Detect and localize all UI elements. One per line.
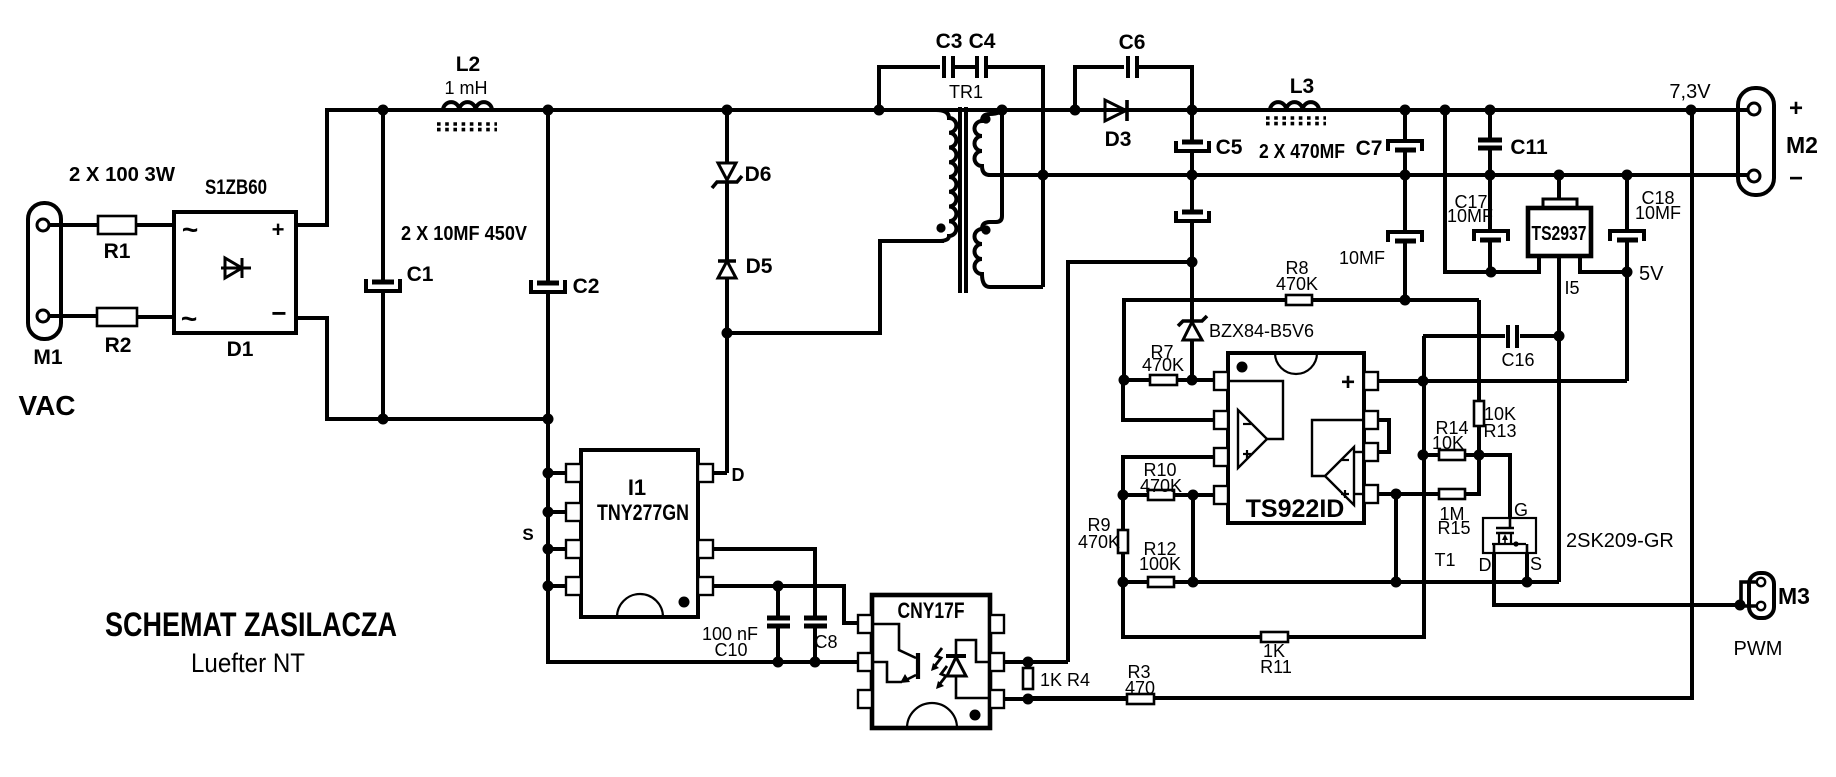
wire plus supply line xyxy=(1378,379,1627,383)
pin I1 right D xyxy=(698,464,713,482)
pin I1 left4 xyxy=(566,577,581,595)
wire C6 to rail xyxy=(1139,67,1192,110)
node D3 anode / C6 branch xyxy=(1070,105,1081,116)
pin CNY right1 xyxy=(990,615,1004,633)
svg-text:R11: R11 xyxy=(1260,657,1292,677)
svg-text:D3: D3 xyxy=(1105,128,1132,151)
svg-text:100K: 100K xyxy=(1139,554,1181,574)
svg-text:10K: 10K xyxy=(1432,433,1464,453)
node R10 right xyxy=(1188,490,1199,501)
node C1 bottom xyxy=(378,414,389,425)
node output to M2 xyxy=(1686,105,1697,116)
transformer secondary upper winding xyxy=(975,112,1002,175)
svg-text:470K: 470K xyxy=(1140,476,1182,496)
node C11 top xyxy=(1485,105,1496,116)
wire 5V down to opamp plus line xyxy=(1625,272,1629,381)
wire S pin2 xyxy=(548,510,566,514)
svg-text:M2: M2 xyxy=(1786,132,1818,158)
node M3 xyxy=(1735,600,1746,611)
node zener to pin1 xyxy=(1187,375,1198,386)
node C16 right on I5 line xyxy=(1554,331,1565,342)
pin CNY left3 xyxy=(858,690,872,708)
svg-text:+: + xyxy=(1341,369,1355,396)
wire C6 branch xyxy=(1075,67,1124,110)
pin U2 right1 xyxy=(1364,372,1378,390)
svg-text:VAC: VAC xyxy=(18,390,75,421)
node R8 line to 10MF xyxy=(1400,295,1411,306)
resistor R15 xyxy=(1396,455,1479,538)
wire bridge plus output xyxy=(296,110,327,225)
wire rail down to regulator input xyxy=(1445,110,1489,272)
connector M3 xyxy=(1740,573,1810,618)
node D6 branch xyxy=(722,105,733,116)
node C5 bottom on rail xyxy=(1187,170,1198,181)
wire R10 node down xyxy=(1191,495,1195,582)
wire top rail xyxy=(325,108,1748,112)
node secondary bottoms / Y-cap xyxy=(1038,170,1049,181)
zener BZX84-B5V6 xyxy=(1178,262,1314,380)
wire C3 C4 branch xyxy=(879,67,940,110)
svg-text:D: D xyxy=(1479,555,1492,575)
node snubber junction xyxy=(722,328,733,339)
op-amp U2B internal xyxy=(1312,420,1364,505)
svg-text:I5: I5 xyxy=(1564,278,1579,298)
node op2 out to R12 xyxy=(1391,577,1402,588)
diode D5 xyxy=(718,255,773,278)
node C3 branch xyxy=(874,105,885,116)
node rail to C17 branch xyxy=(1440,105,1451,116)
pin I1 right en xyxy=(698,577,713,595)
node R12 left xyxy=(1118,577,1129,588)
resistor R11 xyxy=(1260,632,1292,677)
svg-text:C11: C11 xyxy=(1510,136,1548,159)
optocoupler CNY17F xyxy=(872,595,990,728)
inductor L3 xyxy=(1266,75,1326,124)
svg-text:C10: C10 xyxy=(714,640,747,660)
svg-text:~: ~ xyxy=(181,303,197,334)
pin I1 left1 xyxy=(566,464,581,482)
node R7 left xyxy=(1119,375,1130,386)
svg-text:10MF: 10MF xyxy=(1339,248,1385,268)
transistor T1 2SK209 xyxy=(1434,518,1542,575)
resistor R1 xyxy=(98,216,136,263)
wire CNY collector out xyxy=(1004,660,1068,664)
IC U2 TS922ID xyxy=(1228,353,1364,523)
node R4 bottom xyxy=(1023,694,1034,705)
node source xyxy=(1522,577,1533,588)
node D3 cathode xyxy=(1187,105,1198,116)
wire inv input loop xyxy=(1123,380,1214,420)
svg-text:2 X 10MF 450V: 2 X 10MF 450V xyxy=(401,223,528,245)
svg-text:S: S xyxy=(1530,554,1542,574)
wire second rail 0V xyxy=(988,173,1748,177)
capacitor C7 xyxy=(1356,110,1422,175)
svg-text:2 X 470MF: 2 X 470MF xyxy=(1259,141,1345,163)
wire EN pin to opto xyxy=(713,586,860,623)
wire noninv input to R10 node xyxy=(1123,457,1214,495)
wire S pin4 xyxy=(548,584,566,588)
svg-text:R1: R1 xyxy=(104,240,131,263)
wire BP pin to C8 xyxy=(713,549,815,617)
capacitor C18 xyxy=(1610,175,1681,272)
node S pin4 xyxy=(543,581,554,592)
wire S pin3 xyxy=(548,547,566,551)
node C10 top xyxy=(773,581,784,592)
svg-text:C5: C5 xyxy=(1216,136,1243,159)
wire op2 output net xyxy=(1378,494,1396,582)
wire D pin xyxy=(713,471,727,475)
resistor R10 xyxy=(1140,460,1182,500)
resistor R3 xyxy=(1100,662,1200,704)
svg-text:10MF: 10MF xyxy=(1447,206,1493,226)
svg-text:1 mH: 1 mH xyxy=(444,78,487,98)
svg-text:R2: R2 xyxy=(105,334,132,357)
node TS2937 gnd pin on rail xyxy=(1554,170,1565,181)
svg-text:2SK209-GR: 2SK209-GR xyxy=(1566,530,1674,552)
svg-text:Luefter NT: Luefter NT xyxy=(191,648,305,678)
wire R11 line xyxy=(1123,336,1424,637)
svg-text:+: + xyxy=(1789,95,1803,122)
svg-text:L3: L3 xyxy=(1290,75,1315,98)
wire U2B feedback jumper xyxy=(1378,420,1389,452)
connector M2 xyxy=(1738,88,1818,195)
pin U2 right2 xyxy=(1364,411,1378,429)
wire R12 line xyxy=(1123,580,1559,584)
svg-text:C7: C7 xyxy=(1356,137,1383,160)
node feedback tap xyxy=(1187,257,1198,268)
node S pin1 xyxy=(543,468,554,479)
svg-text:C1: C1 xyxy=(407,263,434,286)
svg-text:TS922ID: TS922ID xyxy=(1246,495,1345,523)
wire C3 to C4 xyxy=(955,65,975,69)
wire CNY emitter out xyxy=(1004,697,1100,701)
wire drain to M3 xyxy=(1494,553,1740,605)
pin CNY right2 xyxy=(990,653,1004,671)
wire D6 to D5 xyxy=(725,183,729,261)
svg-text:C16: C16 xyxy=(1501,350,1534,370)
svg-text:5V: 5V xyxy=(1639,263,1664,285)
node R12 right xyxy=(1188,577,1199,588)
resistor R13 xyxy=(1474,300,1517,455)
svg-text:L2: L2 xyxy=(456,53,481,76)
pin U2 left1 xyxy=(1214,372,1228,390)
LED CNY internal xyxy=(946,640,990,698)
pin U2 left2 xyxy=(1214,411,1228,429)
wire R2 to bridge xyxy=(137,315,174,319)
node R14 right gate xyxy=(1474,450,1485,461)
wire node to TNY drain pin xyxy=(725,333,729,473)
capacitor C8 xyxy=(804,618,838,662)
pin I1 left3 xyxy=(566,540,581,558)
pin U2 left4 xyxy=(1214,486,1228,504)
node C2 bottom xyxy=(543,414,554,425)
svg-text:T1: T1 xyxy=(1434,550,1455,570)
svg-text:470K: 470K xyxy=(1078,532,1120,552)
wire M1 pin1 to R1 xyxy=(49,223,98,227)
capacitor 470MF second xyxy=(1176,175,1209,262)
svg-text:C3: C3 xyxy=(936,30,963,53)
svg-text:C4: C4 xyxy=(969,30,996,53)
svg-text:R15: R15 xyxy=(1437,518,1470,538)
transformer core xyxy=(960,107,966,293)
bridge rectifier D1 S1ZB60 xyxy=(174,176,296,361)
node R10 left xyxy=(1118,490,1129,501)
node R4 top xyxy=(1023,657,1034,668)
svg-text:CNY17F: CNY17F xyxy=(898,598,965,623)
svg-text:D: D xyxy=(732,465,745,485)
wire rail to D6 xyxy=(725,110,729,163)
wire R8 line xyxy=(1124,300,1479,380)
svg-text:S1ZB60: S1ZB60 xyxy=(205,176,267,199)
IC I1 TNY277GN xyxy=(581,450,698,617)
svg-text:470K: 470K xyxy=(1142,355,1184,375)
phototransistor CNY internal xyxy=(872,624,918,683)
node C11 bottom / C17 top xyxy=(1485,170,1496,181)
wire S pin1 xyxy=(548,471,566,475)
pin I1 left2 xyxy=(566,503,581,521)
wire M1 pin2 to R2 xyxy=(49,314,97,318)
svg-text:PWM: PWM xyxy=(1734,638,1783,660)
svg-text:C2: C2 xyxy=(573,275,600,298)
svg-text:BZX84-B5V6: BZX84-B5V6 xyxy=(1209,321,1314,341)
node op2 out xyxy=(1391,489,1402,500)
node secondary tops xyxy=(997,105,1008,116)
wire tap to optocoupler xyxy=(1068,262,1192,662)
node C8 bottom xyxy=(810,657,821,668)
pin CNY left2 xyxy=(858,653,872,671)
svg-text:SCHEMAT ZASILACZA: SCHEMAT ZASILACZA xyxy=(105,606,397,644)
svg-text:C8: C8 xyxy=(814,632,837,652)
svg-text:TS2937: TS2937 xyxy=(1532,223,1587,245)
resistor R12 xyxy=(1139,539,1181,587)
capacitor C5 xyxy=(1176,110,1243,175)
pin U2 right3 xyxy=(1364,443,1378,461)
wire R10 line xyxy=(1123,493,1214,497)
svg-text:C6: C6 xyxy=(1119,31,1146,54)
node 5V xyxy=(1622,267,1633,278)
node S pin2 xyxy=(543,507,554,518)
node C2 top xyxy=(543,105,554,116)
node regulator input xyxy=(1486,267,1497,278)
svg-text:−: − xyxy=(1789,165,1803,192)
pin CNY left1 xyxy=(858,615,872,633)
capacitor C2 xyxy=(531,110,599,419)
wire D5 to node xyxy=(725,278,729,333)
capacitor 10MF below C7 xyxy=(1339,175,1422,300)
svg-text:2 X 100 3W: 2 X 100 3W xyxy=(69,164,175,186)
capacitor C11 xyxy=(1478,110,1548,175)
svg-text:10MF: 10MF xyxy=(1635,203,1681,223)
wire snubber to primary bottom xyxy=(727,241,944,333)
svg-text:I1: I1 xyxy=(628,475,646,500)
capacitor C4 xyxy=(969,30,996,78)
node C10 bottom xyxy=(773,657,784,668)
wire 7V3 down to R3 return xyxy=(1029,110,1692,698)
svg-text:M3: M3 xyxy=(1778,583,1810,609)
node C18 top xyxy=(1622,170,1633,181)
resistor R14 xyxy=(1432,418,1469,460)
diode D3 xyxy=(1105,100,1132,151)
capacitor C1 xyxy=(366,110,434,419)
wire source to R12 line xyxy=(1525,553,1529,582)
svg-text:R13: R13 xyxy=(1483,421,1516,441)
svg-text:TR1: TR1 xyxy=(949,82,983,102)
transformer primary winding xyxy=(880,110,956,241)
wire source bus xyxy=(548,419,860,662)
light arrows CNY internal xyxy=(931,648,947,689)
node C1 top xyxy=(378,105,389,116)
svg-text:D5: D5 xyxy=(746,255,773,278)
svg-text:~: ~ xyxy=(182,214,198,245)
wire R14 line xyxy=(1423,453,1510,457)
pin U2 right4 xyxy=(1364,485,1378,503)
capacitor C6 xyxy=(1119,31,1146,78)
wire gate xyxy=(1479,455,1510,518)
resistor R8 xyxy=(1276,258,1318,305)
node S pin3 xyxy=(543,544,554,555)
inductor L2 xyxy=(437,53,497,130)
capacitor C17 xyxy=(1447,175,1508,272)
pin I1 right bp xyxy=(698,540,713,558)
wire bridge minus output xyxy=(296,318,327,419)
svg-text:470K: 470K xyxy=(1276,274,1318,294)
pin U2 left3 xyxy=(1214,448,1228,466)
svg-text:D6: D6 xyxy=(745,163,772,186)
resistor R9 xyxy=(1078,495,1128,582)
node C7 bottom xyxy=(1400,170,1411,181)
op-amp U2A internal xyxy=(1228,381,1283,468)
connector M1 xyxy=(28,203,63,369)
capacitor C10 xyxy=(702,586,790,662)
svg-text:1K R4: 1K R4 xyxy=(1040,670,1090,690)
wire bottom return rail xyxy=(325,417,548,421)
svg-text:7,3V: 7,3V xyxy=(1669,81,1711,103)
wire C4 to secondary bottom xyxy=(988,67,1043,287)
transformer secondary lower winding xyxy=(975,111,1044,287)
diode D6 zener xyxy=(712,163,771,188)
resistor R4 xyxy=(1023,668,1090,690)
node C7 top xyxy=(1400,105,1411,116)
node plus line junction xyxy=(1418,376,1429,387)
capacitor C16 xyxy=(1423,325,1559,370)
regulator TS2937 xyxy=(1491,175,1627,582)
svg-text:−: − xyxy=(271,298,286,328)
capacitor C3 xyxy=(936,30,963,78)
svg-text:470: 470 xyxy=(1125,678,1155,698)
pin CNY right3 xyxy=(990,690,1004,708)
svg-text:S: S xyxy=(522,525,533,544)
wire R1 to bridge xyxy=(136,223,174,227)
resistor R7 xyxy=(1124,342,1214,385)
resistor R2 xyxy=(97,308,137,357)
svg-text:M1: M1 xyxy=(33,346,62,369)
transformer TR1 xyxy=(949,82,983,102)
svg-text:+: + xyxy=(272,217,285,242)
node R14 left xyxy=(1418,450,1429,461)
svg-text:D1: D1 xyxy=(227,338,254,361)
svg-text:TNY277GN: TNY277GN xyxy=(597,500,689,525)
